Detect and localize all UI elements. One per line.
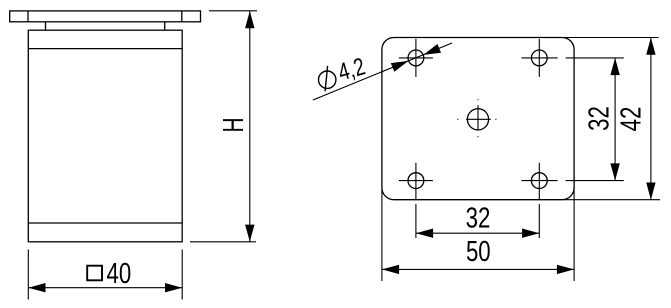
center hole centerline horizontal (dash-dot) <box>457 118 496 120</box>
dim 32 bottom: dimension line <box>416 232 539 234</box>
left view: leg body outline <box>28 30 182 242</box>
square40 arrow left <box>28 283 45 292</box>
hole bottom-right <box>531 173 547 189</box>
dim 50 arrow right <box>557 265 574 274</box>
dim 32 bottom: left extension line <box>415 204 417 238</box>
left view: top mounting plate (side) <box>10 11 201 22</box>
svg-text:50: 50 <box>466 237 491 268</box>
svg-text:4,2: 4,2 <box>335 52 368 86</box>
leader line for hole diameter <box>313 43 452 100</box>
dim 32 right: top extension line <box>566 57 624 59</box>
left view: neck line left <box>45 22 47 30</box>
crosshair top-left hole horizontal <box>399 57 433 59</box>
diameter symbol circle <box>319 71 336 88</box>
dim 32 right arrow down <box>610 163 619 180</box>
hole top-left <box>408 50 424 66</box>
H dimension line <box>249 11 251 242</box>
H dimension: top extension line <box>209 10 257 12</box>
hole top-right <box>531 50 547 66</box>
crosshair bottom-left hole vertical <box>415 163 417 200</box>
right view: mounting plate outline (top view) <box>382 38 574 200</box>
diameter symbol slash <box>325 66 328 92</box>
left view: body upper inner line <box>28 48 182 50</box>
dim 32 bottom: right extension line <box>538 204 540 238</box>
H dimension arrow down <box>245 225 254 242</box>
svg-text:42: 42 <box>616 107 647 132</box>
dim 32 right: dimension line <box>614 58 616 181</box>
dim 42 arrow down <box>646 183 655 200</box>
H dimension: bottom extension line <box>190 241 256 243</box>
dim 32 bottom arrow right <box>522 229 539 238</box>
crosshair bottom-right hole horizontal <box>521 180 557 182</box>
dim 42: bottom extension line <box>563 199 660 201</box>
left view: plate tab divider right <box>181 11 183 22</box>
left view: neck line right <box>164 22 166 30</box>
dim 50: dimension line <box>382 268 574 270</box>
leader arrow upper-right <box>423 44 441 55</box>
dim 50: right extension line <box>573 187 575 281</box>
dim 32 bottom arrow left <box>416 229 433 238</box>
H dimension arrow up <box>245 11 254 28</box>
dim 42 arrow up <box>646 38 655 55</box>
svg-text:40: 40 <box>107 259 132 290</box>
square40 dimension line <box>28 287 182 289</box>
center hole centerline vertical (dash-dot) <box>477 99 479 137</box>
left view: body lower inner line <box>28 222 182 224</box>
label diameter 4,2 (rotated) <box>319 66 336 92</box>
center hole <box>467 109 488 130</box>
crosshair bottom-right hole vertical <box>538 163 540 200</box>
square symbol of square40 label <box>87 266 102 281</box>
dim 50 arrow left <box>382 265 399 274</box>
hole bottom-left <box>408 173 424 189</box>
dim 42: top extension line <box>563 37 659 39</box>
svg-text:32: 32 <box>466 203 491 234</box>
left view: plate tab divider left <box>27 11 29 22</box>
crosshair top-right hole vertical <box>538 39 540 77</box>
svg-text:32: 32 <box>584 106 615 131</box>
crosshair bottom-left hole horizontal <box>399 180 433 182</box>
dim 32 right arrow up <box>610 58 619 75</box>
dim 32 right: bottom extension line <box>566 180 624 182</box>
square40 dimension: left extension line <box>27 250 29 300</box>
dim 42: dimension line <box>650 38 652 200</box>
square40 arrow right <box>165 283 182 292</box>
crosshair top-right hole horizontal <box>521 57 557 59</box>
svg-text:H: H <box>218 117 250 132</box>
square40 dimension: right extension line <box>181 250 183 300</box>
crosshair top-left hole vertical <box>415 39 417 77</box>
leader arrow lower-left <box>391 61 409 72</box>
dim 50: left extension line <box>381 189 383 281</box>
